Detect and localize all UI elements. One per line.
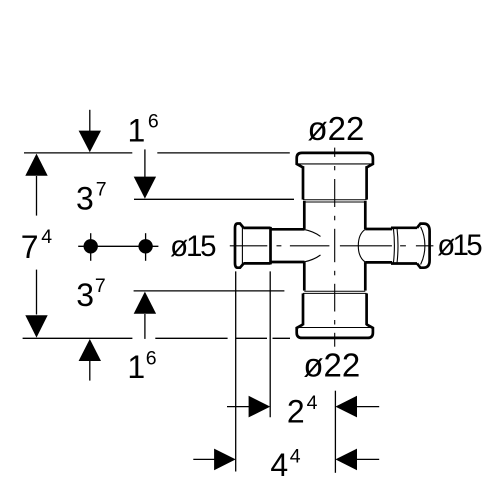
- svg-text:4: 4: [270, 447, 288, 483]
- svg-text:6: 6: [146, 348, 157, 370]
- svg-text:4: 4: [290, 446, 301, 468]
- svg-text:ø15: ø15: [170, 230, 217, 263]
- svg-text:ø22: ø22: [303, 346, 360, 383]
- svg-text:7: 7: [95, 275, 106, 297]
- svg-text:3: 3: [76, 277, 94, 313]
- svg-text:4: 4: [41, 226, 52, 248]
- svg-text:ø22: ø22: [308, 110, 365, 147]
- svg-text:6: 6: [148, 110, 159, 132]
- svg-text:7: 7: [96, 178, 107, 200]
- svg-text:4: 4: [307, 392, 318, 414]
- svg-text:2: 2: [287, 394, 305, 430]
- svg-text:1: 1: [128, 113, 146, 149]
- svg-text:ø15: ø15: [437, 229, 483, 262]
- svg-text:1: 1: [127, 349, 145, 385]
- svg-text:7: 7: [21, 229, 39, 265]
- svg-text:3: 3: [76, 181, 94, 217]
